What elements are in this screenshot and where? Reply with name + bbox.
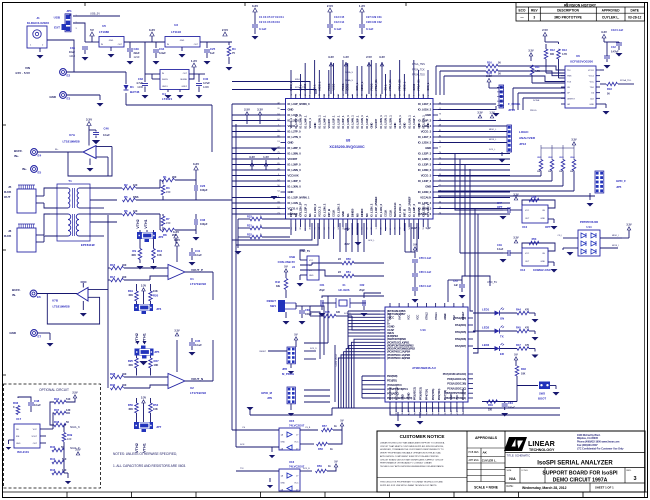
svg-text:VCC: VCC [455, 395, 459, 400]
svg-text:PROG: PROG [530, 110, 537, 112]
svg-text:40K: 40K [128, 293, 133, 297]
svg-text:TECHNOLOGY APPLICATIONS ENGINE: TECHNOLOGY APPLICATIONS ENGINEERING FOR … [380, 465, 445, 468]
svg-text:C41: C41 [195, 249, 201, 253]
svg-text:VCC: VCC [590, 81, 595, 83]
svg-text:R38: R38 [54, 420, 60, 424]
svg-text:MOSI_L: MOSI_L [489, 139, 497, 141]
svg-text:IO_L12N_2: IO_L12N_2 [370, 203, 374, 217]
svg-text:FPGA_D1: FPGA_D1 [389, 79, 392, 91]
svg-text:R44: R44 [516, 308, 521, 312]
svg-text:USB: USB [54, 16, 61, 20]
svg-text:C28 C30 C32: C28 C30 C32 [366, 20, 382, 24]
svg-text:130: 130 [66, 408, 71, 412]
svg-text:IO_L27N_0: IO_L27N_0 [288, 135, 302, 139]
svg-text:PC7(A15/IC.3/CLKO): PC7(A15/IC.3/CLKO) [443, 372, 467, 376]
svg-text:2.5V: 2.5V [344, 227, 350, 231]
svg-text:FPGA_TDL: FPGA_TDL [620, 79, 632, 82]
svg-text:IO_L34P_1: IO_L34P_1 [303, 115, 307, 129]
svg-text:REVISION HISTORY: REVISION HISTORY [564, 3, 597, 7]
svg-text:GR: GR [567, 104, 571, 106]
svg-text:GND: GND [180, 40, 185, 42]
svg-text:U14: U14 [586, 225, 592, 229]
svg-text:R32: R32 [247, 233, 252, 237]
svg-text:JP7: JP7 [156, 425, 162, 429]
svg-text:C46: C46 [104, 127, 110, 131]
svg-text:LED3: LED3 [482, 343, 490, 347]
svg-text:U10: U10 [522, 225, 528, 229]
svg-text:R3: R3 [166, 186, 170, 190]
svg-text:USB_5V: USB_5V [90, 12, 100, 16]
svg-text:DNS: DNS [537, 171, 542, 173]
svg-text:GND: GND [109, 40, 114, 42]
svg-text:CS_L: CS_L [384, 84, 387, 91]
svg-text:5V: 5V [514, 353, 518, 357]
svg-text:IO_L23N_3: IO_L23N_3 [418, 168, 432, 172]
svg-text:C1 C3 C5 C7 C9 C11: C1 C3 C5 C7 C9 C11 [259, 15, 284, 19]
svg-text:GND: GND [541, 218, 546, 220]
svg-text:R19: R19 [128, 289, 134, 293]
svg-text:5V: 5V [334, 460, 337, 464]
svg-text:1.2V: 1.2V [343, 55, 349, 59]
svg-text:IO_L01N_3: IO_L01N_3 [418, 108, 432, 112]
svg-text:TDI: TDI [567, 70, 571, 72]
svg-text:PA0(AD0): PA0(AD0) [461, 389, 465, 400]
svg-text:LT1819IMS8: LT1819IMS8 [62, 140, 79, 144]
svg-text:SUPPORT BOARD FOR IsoSPI: SUPPORT BOARD FOR IsoSPI [542, 471, 618, 477]
svg-text:3.3V: 3.3V [601, 30, 607, 34]
svg-text:INIT_B: INIT_B [289, 209, 293, 217]
svg-text:IO_L35P_1: IO_L35P_1 [294, 115, 298, 129]
svg-text:R37: R37 [54, 408, 60, 412]
svg-text:R13: R13 [562, 48, 567, 52]
svg-text:C55 0.1uF: C55 0.1uF [419, 256, 432, 260]
svg-text:U2: U2 [190, 386, 194, 390]
svg-text:T1: T1 [68, 179, 72, 183]
svg-text:IO_L12P_2: IO_L12P_2 [303, 203, 307, 217]
svg-text:GND: GND [425, 185, 431, 189]
svg-text:3: 3 [533, 16, 535, 20]
svg-text:C39: C39 [134, 47, 140, 51]
svg-text:IO_L30P_0: IO_L30P_0 [288, 179, 302, 183]
svg-text:IO_L01N_1: IO_L01N_1 [407, 115, 411, 129]
svg-text:VOUT_P: VOUT_P [191, 268, 203, 272]
svg-text:INIT_B: INIT_B [327, 209, 331, 217]
svg-text:GND2: GND2 [181, 86, 187, 88]
svg-text:C60: C60 [305, 308, 310, 312]
svg-text:INIT_B: INIT_B [403, 209, 407, 217]
svg-text:OPTIONAL CIRCUIT: OPTIONAL CIRCUIT [39, 388, 69, 392]
svg-text:PE2: PE2 [452, 315, 456, 320]
svg-text:GND: GND [288, 190, 294, 194]
svg-text:JP5: JP5 [616, 185, 622, 189]
svg-text:IO_L01N_1: IO_L01N_1 [421, 115, 425, 129]
svg-text:BOOT: BOOT [538, 397, 546, 401]
svg-text:TDO: TDO [590, 87, 595, 89]
svg-text:1206: 1206 [137, 85, 143, 89]
svg-text:4.7K: 4.7K [562, 53, 567, 56]
svg-text:470: 470 [525, 327, 530, 330]
svg-text:IO_L10N_2: IO_L10N_2 [322, 203, 326, 217]
svg-text:BAT46: BAT46 [130, 90, 140, 94]
svg-text:CCLK: CCLK [332, 210, 336, 217]
svg-text:F_PROG: F_PROG [508, 102, 521, 106]
svg-text:PRTR5V0U4D: PRTR5V0U4D [580, 220, 598, 224]
svg-text:PF6(TDO): PF6(TDO) [437, 389, 441, 400]
svg-text:J5: J5 [8, 185, 12, 189]
svg-text:IC NO.: IC NO. [522, 470, 529, 472]
svg-text:IsoSPI SERIAL ANALYZER: IsoSPI SERIAL ANALYZER [537, 461, 613, 467]
svg-text:1206: 1206 [203, 85, 209, 89]
svg-text:C26: C26 [200, 184, 206, 188]
svg-text:GCK0: GCK0 [413, 83, 416, 90]
svg-text:VCCAUX: VCCAUX [420, 196, 431, 200]
svg-text:22uF: 22uF [134, 51, 140, 55]
svg-text:LT1086: LT1086 [99, 30, 109, 34]
svg-text:1uF: 1uF [210, 51, 215, 55]
svg-text:SIZE: SIZE [507, 470, 512, 472]
svg-text:VCC: VCC [525, 210, 530, 212]
svg-text:GND: GND [426, 123, 430, 129]
svg-text:2.5V: 2.5V [366, 55, 372, 59]
svg-text:APPROVED: APPROVED [602, 9, 621, 13]
svg-text:U17: U17 [16, 417, 22, 421]
svg-text:R1: R1 [163, 175, 167, 179]
svg-text:MISO: MISO [295, 79, 301, 81]
svg-text:GND: GND [400, 394, 404, 400]
svg-text:R9: R9 [132, 249, 136, 253]
svg-text:U7A: U7A [69, 133, 76, 137]
svg-text:USB: USB [289, 255, 295, 259]
svg-text:RESET: RESET [259, 351, 266, 353]
svg-text:PROG: PROG [328, 83, 331, 90]
svg-text:1.2V: 1.2V [489, 111, 495, 115]
svg-text:PA5(AD5): PA5(AD5) [455, 330, 466, 334]
svg-text:3.3V: 3.3V [141, 284, 147, 288]
svg-text:BUFF.: BUFF. [12, 288, 21, 292]
svg-text:RJ45: RJ45 [4, 234, 12, 238]
svg-text:XOUT: XOUT [31, 436, 37, 438]
svg-text:VCCINT: VCCINT [327, 119, 331, 129]
svg-text:M0: M0 [355, 213, 359, 217]
svg-text:10K: 10K [521, 373, 526, 376]
svg-text:R27: R27 [154, 359, 160, 363]
svg-text:IO_L11P_2/VREF: IO_L11P_2/VREF [407, 196, 411, 217]
svg-text:FPGA_D1: FPGA_D1 [418, 79, 421, 91]
svg-text:C42: C42 [611, 45, 616, 49]
svg-text:GND: GND [49, 95, 57, 99]
svg-text:U1: U1 [190, 277, 194, 281]
svg-text:FPGA_TDO: FPGA_TDO [412, 74, 425, 77]
svg-text:DIN/D0: DIN/D0 [351, 208, 355, 217]
svg-text:RESET: RESET [267, 299, 277, 303]
svg-text:VCCO_1: VCCO_1 [289, 118, 293, 129]
svg-text:IO_L34P_1: IO_L34P_1 [322, 115, 326, 129]
svg-text:Wednesday, March 28, 2012: Wednesday, March 28, 2012 [522, 486, 567, 490]
svg-text:330: 330 [336, 311, 341, 314]
svg-text:JP5: JP5 [154, 350, 160, 354]
svg-text:RJ45: RJ45 [4, 190, 12, 194]
svg-text:100pF: 100pF [200, 222, 208, 226]
svg-text:100: 100 [133, 183, 138, 187]
svg-text:AVCC: AVCC [388, 313, 392, 320]
svg-text:PA4(AD4): PA4(AD4) [455, 323, 466, 327]
svg-text:C25: C25 [210, 47, 216, 51]
svg-text:C27 C29 C31: C27 C29 C31 [366, 15, 382, 19]
svg-text:3.3V: 3.3V [328, 55, 334, 59]
svg-text:M1: M1 [308, 213, 312, 217]
svg-text:LTC Confidential-For Customer: LTC Confidential-For Customer Use Only [577, 447, 624, 450]
svg-text:DIN/D0: DIN/D0 [360, 208, 364, 217]
svg-text:R12: R12 [550, 48, 555, 52]
svg-text:5V: 5V [340, 419, 343, 423]
svg-text:400: 400 [122, 275, 127, 279]
svg-text:400: 400 [122, 372, 127, 376]
svg-text:100nF: 100nF [508, 407, 515, 410]
svg-text:PERFORMANCE OR RELIABILITY. C: PERFORMANCE OR RELIABILITY. CONTACT LINE… [380, 462, 432, 465]
svg-text:GND: GND [9, 331, 17, 335]
svg-text:0.47uF: 0.47uF [611, 51, 619, 54]
svg-text:M1: M1 [346, 213, 350, 217]
svg-text:MISO_L: MISO_L [403, 81, 406, 90]
svg-text:VCCINT: VCCINT [417, 207, 421, 217]
svg-text:MISO_L: MISO_L [361, 81, 364, 90]
svg-text:EPF8119F: EPF8119F [81, 243, 95, 247]
svg-text:10K: 10K [154, 363, 159, 367]
svg-text:MISO_L: MISO_L [489, 129, 497, 131]
svg-text:AT90USB646-AU: AT90USB646-AU [412, 366, 436, 370]
svg-text:4.5V - 5.5V: 4.5V - 5.5V [15, 71, 30, 75]
svg-text:IO_L30N_0: IO_L30N_0 [288, 185, 302, 189]
svg-text:C36: C36 [200, 218, 206, 222]
svg-text:SENSE: SENSE [180, 79, 187, 81]
svg-text:3.3V: 3.3V [249, 155, 255, 159]
svg-text:CUYLER L.: CUYLER L. [602, 16, 619, 20]
svg-text:HOWEVER, IT REMAINS THE CUSTOM: HOWEVER, IT REMAINS THE CUSTOMER'S RESPO… [380, 448, 444, 451]
svg-text:3.3V: 3.3V [528, 49, 534, 53]
svg-text:GND: GND [281, 442, 286, 444]
svg-text:IO_L28N_0: IO_L28N_0 [288, 152, 302, 156]
svg-text:CS_B: CS_B [305, 427, 311, 429]
svg-text:VCC: VCC [406, 315, 410, 320]
svg-text:5V: 5V [284, 265, 288, 269]
svg-text:5V: 5V [413, 243, 417, 247]
svg-text:M0: M0 [365, 213, 369, 217]
svg-text:R5: R5 [124, 195, 128, 199]
svg-text:SCKA_S: SCKA_S [345, 71, 354, 74]
svg-text:APP ENG: APP ENG [469, 459, 479, 462]
svg-text:R57: R57 [322, 424, 327, 428]
svg-text:PROG: PROG [342, 83, 345, 90]
svg-text:CS_I: CS_I [558, 235, 563, 237]
svg-text:SCK_B: SCK_B [303, 468, 310, 470]
svg-text:IO_L28P_0: IO_L28P_0 [288, 146, 302, 150]
svg-text:IO_L35N_1: IO_L35N_1 [398, 115, 402, 129]
svg-text:GND: GND [589, 104, 594, 106]
svg-text:R43: R43 [50, 468, 56, 472]
svg-text:N/A: N/A [509, 477, 516, 481]
svg-text:EXT: EXT [54, 26, 60, 30]
svg-text:PE0(WR): PE0(WR) [387, 374, 398, 378]
svg-text:DATE:: DATE: [507, 485, 514, 488]
svg-text:LT1719CS8: LT1719CS8 [190, 282, 206, 286]
svg-text:PROG: PROG [370, 83, 373, 90]
svg-text:5V: 5V [90, 28, 94, 32]
svg-text:PF0(ADC0): PF0(ADC0) [388, 387, 392, 400]
svg-text:3.3V: 3.3V [174, 329, 180, 333]
svg-text:R41: R41 [50, 457, 56, 461]
svg-text:3.3V: 3.3V [86, 117, 92, 121]
svg-text:VCCO: VCCO [333, 83, 336, 90]
svg-text:4.7uF: 4.7uF [136, 81, 143, 85]
svg-text:DONE: DONE [533, 100, 540, 102]
svg-text:IO_L11N_2: IO_L11N_2 [398, 203, 402, 217]
svg-text:C62: C62 [360, 283, 365, 287]
svg-text:VCCO_3: VCCO_3 [421, 130, 432, 134]
svg-text:400: 400 [122, 383, 127, 387]
svg-text:360: 360 [550, 53, 555, 56]
svg-text:PF4(TCK): PF4(TCK) [425, 389, 429, 400]
svg-text:C48: C48 [34, 399, 40, 403]
svg-text:JP4: JP4 [156, 307, 162, 311]
svg-text:ON: ON [500, 317, 504, 321]
svg-text:R58: R58 [318, 447, 323, 451]
svg-text:R31: R31 [247, 224, 252, 228]
svg-text:IO_L35P_1: IO_L35P_1 [355, 115, 359, 129]
svg-text:SCK_L: SCK_L [489, 149, 496, 151]
svg-text:IO_L22P_3: IO_L22P_3 [418, 152, 432, 156]
svg-text:LOGIC: LOGIC [519, 130, 529, 134]
svg-text:IO_L10N_2: IO_L10N_2 [421, 203, 425, 217]
svg-text:GND: GND [341, 211, 345, 217]
svg-text:IO_L21P_3: IO_L21P_3 [418, 135, 432, 139]
svg-text:LT1819IMS8: LT1819IMS8 [52, 305, 69, 309]
svg-text:R16: R16 [487, 61, 492, 65]
svg-text:PF7(TDI): PF7(TDI) [443, 390, 447, 400]
svg-text:100pF: 100pF [200, 188, 208, 192]
svg-text:C61: C61 [320, 283, 325, 287]
svg-text:C43 0.1uF: C43 0.1uF [611, 28, 624, 32]
svg-text:PA7(AD7): PA7(AD7) [455, 344, 466, 348]
svg-text:OPT: OPT [497, 205, 503, 209]
svg-text:4.7uF: 4.7uF [203, 81, 210, 85]
svg-text:TX: TX [500, 335, 504, 339]
svg-text:CLK: CLK [590, 98, 595, 100]
svg-text:TECHNOLOGY: TECHNOLOGY [529, 448, 555, 452]
svg-text:SDAA_S: SDAA_S [345, 79, 354, 82]
svg-text:2.5V: 2.5V [244, 108, 250, 112]
svg-text:IO_L32N_1: IO_L32N_1 [318, 115, 322, 129]
svg-text:0.1uF: 0.1uF [259, 27, 267, 31]
svg-text:GND: GND [309, 275, 314, 277]
svg-text:R8: R8 [163, 233, 167, 237]
svg-text:IO_L21N_3: IO_L21N_3 [418, 141, 432, 145]
svg-text:GND: GND [313, 123, 317, 129]
svg-text:TMS: TMS [567, 76, 572, 78]
svg-text:VOUT_N: VOUT_N [191, 377, 203, 381]
svg-text:IO_L22N_3: IO_L22N_3 [418, 157, 432, 161]
svg-text:40K: 40K [128, 407, 133, 411]
svg-text:10K: 10K [153, 407, 158, 411]
svg-text:1uF: 1uF [454, 284, 459, 287]
svg-text:TITLE: SCHEMATIC: TITLE: SCHEMATIC [507, 453, 531, 457]
svg-text:1.2V: 1.2V [263, 155, 269, 159]
svg-text:4.7K: 4.7K [535, 70, 540, 73]
svg-text:2.5V: 2.5V [542, 28, 548, 32]
svg-text:IO_L33N_1: IO_L33N_1 [346, 115, 350, 129]
svg-text:IN-: IN- [12, 293, 16, 297]
svg-text:KLDHCX-0202X: KLDHCX-0202X [27, 21, 49, 25]
svg-text:R42: R42 [275, 280, 280, 284]
svg-text:IO_L01N_1: IO_L01N_1 [384, 115, 388, 129]
svg-text:TXI: TXI [240, 468, 244, 470]
svg-text:R25: R25 [128, 359, 134, 363]
svg-text:BUFF.: BUFF. [14, 149, 23, 153]
svg-text:IO_L12N_2: IO_L12N_2 [336, 203, 340, 217]
svg-text:GND: GND [403, 123, 407, 129]
svg-text:U3: U3 [174, 23, 178, 27]
svg-text:J1: J1 [36, 16, 40, 20]
svg-text:2.5V: 2.5V [75, 448, 81, 452]
svg-text:U8: U8 [346, 139, 351, 143]
svg-text:PF5(TMS): PF5(TMS) [431, 389, 435, 400]
svg-text:03-28-12: 03-28-12 [628, 16, 641, 20]
svg-text:3.3V: 3.3V [513, 236, 519, 240]
svg-text:E3: E3 [67, 97, 71, 101]
svg-text:IO_L01P_1: IO_L01P_1 [365, 115, 369, 129]
svg-text:VCCINT: VCCINT [288, 157, 298, 161]
svg-text:VCC: VCC [33, 429, 38, 431]
svg-text:2.5V: 2.5V [222, 28, 228, 32]
svg-text:GND: GND [370, 123, 374, 129]
svg-text:150: 150 [166, 190, 171, 194]
svg-text:10K: 10K [157, 253, 162, 257]
svg-text:R7: R7 [166, 217, 170, 221]
svg-text:1210: 1210 [134, 55, 140, 59]
svg-text:U7B: U7B [52, 299, 59, 303]
svg-text:IN+: IN+ [22, 167, 27, 171]
svg-text:GND: GND [288, 141, 294, 145]
svg-text:C47: C47 [497, 201, 502, 205]
svg-text:C65 0.1uF: C65 0.1uF [419, 270, 432, 274]
svg-text:GND1: GND1 [162, 86, 168, 88]
svg-text:C49: C49 [497, 243, 502, 247]
svg-text:APPROVALS: APPROVALS [475, 436, 498, 440]
svg-text:SUPPLIED FOR USE WITH LINEAR T: SUPPLIED FOR USE WITH LINEAR TECHNOLOGY … [380, 484, 437, 487]
svg-text:330: 330 [488, 409, 493, 412]
svg-text:IO_L35P_1: IO_L35P_1 [341, 115, 345, 129]
svg-text:MOSI_I: MOSI_I [612, 245, 619, 247]
svg-text:IO_L11N_2: IO_L11N_2 [379, 203, 383, 217]
svg-text:IO_L23P_3: IO_L23P_3 [418, 163, 432, 167]
svg-text:2.5V: 2.5V [327, 4, 333, 8]
svg-text:R10: R10 [157, 249, 163, 253]
svg-text:GPD_F: GPD_F [616, 179, 626, 183]
svg-text:SCK_S: SCK_S [310, 348, 317, 350]
svg-text:VCC: VCC [309, 260, 314, 262]
svg-text:40K: 40K [128, 363, 133, 367]
svg-text:APPLICATION. COMPONENT SUBSTI: APPLICATION. COMPONENT SUBSTITUTION AND … [380, 455, 439, 458]
svg-text:REV.: REV. [627, 470, 632, 472]
svg-text:3.3V: 3.3V [149, 28, 155, 32]
svg-text:VTH2: VTH2 [136, 219, 140, 228]
svg-text:XTAL1: XTAL1 [434, 312, 438, 320]
svg-text:1.2V: 1.2V [359, 4, 365, 8]
svg-text:LINEAR TECHNOLOGY HAS MADE A B: LINEAR TECHNOLOGY HAS MADE A BEST EFFORT… [380, 442, 445, 445]
svg-text:UVCC: UVCC [397, 313, 401, 320]
svg-text:3RD PROTOTYPE: 3RD PROTOTYPE [554, 16, 583, 20]
svg-text:IO_L01P_1: IO_L01P_1 [332, 115, 336, 129]
svg-text:GND: GND [541, 261, 546, 263]
